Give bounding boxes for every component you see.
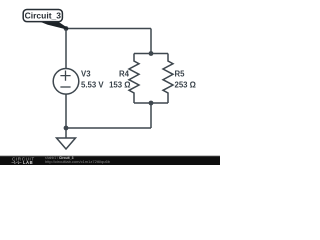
wire top rail of parallel resistors: [134, 53, 168, 55]
watermark text: [45, 156, 111, 164]
svg-text:253 Ω: 253 Ω: [175, 80, 196, 89]
CircuitLab logo: [12, 156, 35, 165]
junction dot top of parallel pair: [149, 51, 154, 56]
node A junction dot (top-left): [64, 26, 69, 31]
svg-text:LAB: LAB: [23, 160, 33, 165]
wire V3 bottom lead: [65, 94, 67, 128]
svg-text:R4: R4: [119, 70, 130, 79]
svg-text:http://circuitlab.com/c1m1z72t: http://circuitlab.com/c1m1z72t6lqu6b: [45, 159, 111, 164]
svg-text:V3: V3: [81, 70, 91, 79]
junction dot bottom of parallel pair: [149, 101, 154, 106]
wire V3 top lead: [65, 29, 67, 69]
label R5 value: [175, 70, 196, 90]
ground: [57, 128, 76, 149]
resistor R5: [163, 54, 173, 104]
wire bottom return rail: [66, 127, 151, 129]
junction dot ground node: [64, 126, 69, 131]
node label callout Circuit_3: [23, 10, 67, 29]
resistor R4: [129, 54, 139, 104]
svg-text:R5: R5: [175, 70, 186, 79]
wire bottom rail of parallel resistors: [134, 102, 168, 104]
wire right drop from top rail to parallel pair: [150, 29, 152, 54]
wire bottom drop from parallel pair: [150, 103, 152, 128]
svg-text:153 Ω: 153 Ω: [109, 80, 130, 89]
voltage source V3: [53, 69, 79, 95]
label V3 value: [81, 70, 104, 90]
svg-text:5.53 V: 5.53 V: [81, 80, 104, 89]
wire top rail from node A to top-right corner: [66, 28, 151, 30]
svg-text:Circuit_3: Circuit_3: [25, 10, 62, 20]
watermark bar: [0, 155, 220, 165]
label R4 value: [109, 70, 130, 90]
